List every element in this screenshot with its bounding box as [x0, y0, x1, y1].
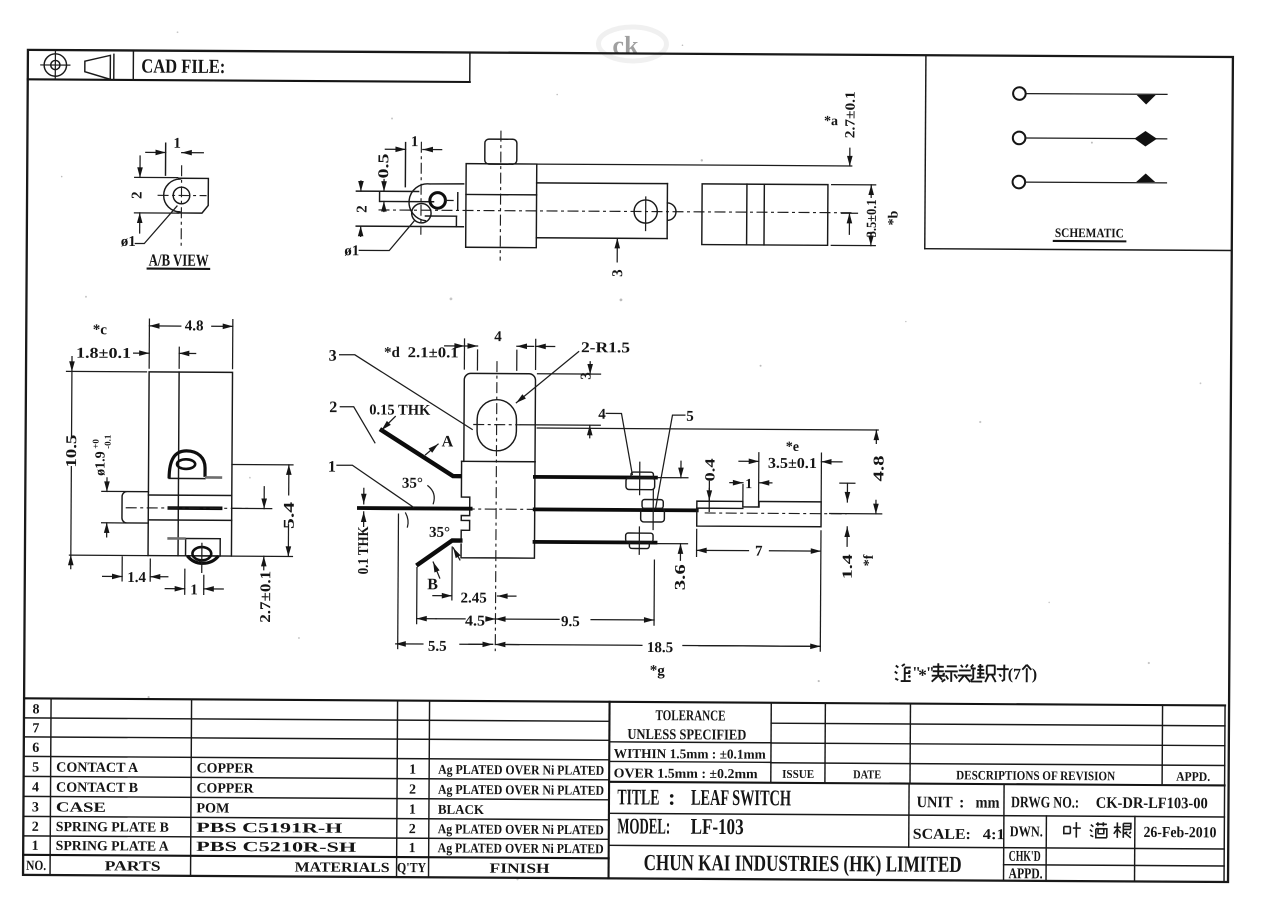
svg-text:B: B — [427, 576, 438, 593]
svg-text:2: 2 — [329, 399, 337, 416]
svg-text:): ) — [1032, 666, 1037, 683]
svg-text:APPD.: APPD. — [1176, 769, 1210, 784]
svg-text:WITHIN 1.5mm : ±0.1mm: WITHIN 1.5mm : ±0.1mm — [614, 746, 767, 762]
svg-text:COPPER: COPPER — [197, 761, 255, 776]
svg-text:MATERIALS: MATERIALS — [295, 860, 390, 876]
svg-text:1: 1 — [745, 477, 752, 492]
svg-text:TOLERANCE: TOLERANCE — [655, 708, 725, 724]
svg-text:*e: *e — [786, 440, 799, 455]
svg-text:26-Feb-2010: 26-Feb-2010 — [1143, 824, 1216, 841]
svg-text:4: 4 — [32, 780, 39, 795]
svg-text:1.4: 1.4 — [841, 554, 856, 579]
svg-text:3.5±0.1: 3.5±0.1 — [768, 456, 817, 472]
svg-text:1: 1 — [409, 841, 416, 856]
svg-text:Ag PLATED OVER Ni PLATED: Ag PLATED OVER Ni PLATED — [438, 782, 604, 798]
svg-text:4: 4 — [494, 329, 502, 345]
svg-text:LEAF SWITCH: LEAF SWITCH — [691, 785, 791, 811]
svg-text:*b: *b — [886, 210, 901, 225]
svg-text:10.5: 10.5 — [64, 435, 80, 468]
svg-text:*g: *g — [650, 663, 666, 679]
svg-text:*c: *c — [93, 322, 108, 338]
svg-text:4.8: 4.8 — [871, 455, 887, 481]
svg-text:(7: (7 — [1008, 666, 1021, 683]
svg-text:2: 2 — [354, 205, 370, 213]
svg-text:5: 5 — [32, 760, 39, 775]
svg-text:3: 3 — [329, 348, 337, 365]
svg-text:DESCRIPTIONS OF REVISION: DESCRIPTIONS OF REVISION — [956, 767, 1116, 783]
svg-text:ck: ck — [612, 31, 639, 60]
svg-text:2: 2 — [130, 191, 146, 199]
svg-text:SPRING PLATE A: SPRING PLATE A — [56, 839, 170, 855]
svg-text:35°: 35° — [402, 476, 423, 492]
svg-text:2: 2 — [32, 820, 39, 835]
svg-text:9.5: 9.5 — [561, 614, 580, 630]
svg-text:SCALE:: SCALE: — [913, 827, 971, 843]
svg-text:PBS C5210R-SH: PBS C5210R-SH — [196, 840, 356, 856]
svg-text:18.5: 18.5 — [647, 640, 673, 656]
svg-text:MODEL:: MODEL: — [617, 813, 670, 838]
svg-text:3: 3 — [32, 800, 39, 815]
svg-text::: : — [959, 794, 964, 811]
svg-text:1: 1 — [328, 459, 336, 476]
svg-text:UNIT: UNIT — [917, 794, 953, 811]
svg-text:": " — [926, 665, 935, 682]
svg-text:1.4: 1.4 — [127, 570, 146, 586]
svg-text:8: 8 — [32, 702, 39, 717]
svg-text:*a: *a — [824, 114, 838, 129]
svg-text:+0: +0 — [91, 439, 101, 449]
svg-text:6: 6 — [32, 741, 39, 756]
svg-text:0.1 THK: 0.1 THK — [356, 526, 372, 574]
svg-text:0.4: 0.4 — [703, 458, 718, 481]
svg-text:7: 7 — [32, 721, 39, 736]
svg-text:3: 3 — [578, 372, 594, 380]
svg-text:35°: 35° — [429, 525, 450, 541]
svg-text:ø1: ø1 — [121, 234, 136, 250]
svg-text:2.7±0.1: 2.7±0.1 — [258, 571, 274, 623]
svg-text:4.5: 4.5 — [465, 613, 485, 629]
svg-text:Ag PLATED OVER Ni PLATED: Ag PLATED OVER Ni PLATED — [438, 762, 604, 778]
svg-text:5.5: 5.5 — [428, 639, 447, 655]
svg-text:-0.1: -0.1 — [103, 434, 113, 449]
svg-text:*d: *d — [384, 345, 401, 361]
svg-text:0.5: 0.5 — [376, 153, 392, 178]
svg-text:Ag PLATED OVER Ni PLATED: Ag PLATED OVER Ni PLATED — [438, 821, 604, 837]
svg-text:ø1: ø1 — [344, 243, 359, 259]
svg-text:mm: mm — [975, 794, 1000, 811]
svg-text:2.45: 2.45 — [461, 590, 487, 606]
svg-text:CAD FILE:: CAD FILE: — [141, 56, 225, 78]
svg-text:1.8±0.1: 1.8±0.1 — [76, 346, 131, 362]
svg-text:2: 2 — [409, 783, 416, 798]
svg-text:LF-103: LF-103 — [691, 814, 744, 839]
svg-text:SPRING PLATE B: SPRING PLATE B — [56, 820, 169, 836]
svg-text:PARTS: PARTS — [105, 859, 161, 874]
svg-text::: : — [668, 785, 676, 810]
svg-text:DRWG NO.:: DRWG NO.: — [1011, 794, 1079, 811]
svg-text:3: 3 — [610, 269, 626, 277]
svg-text:SCHEMATIC: SCHEMATIC — [1055, 225, 1124, 240]
svg-text:ø1.9: ø1.9 — [93, 451, 108, 476]
svg-text:Q'TY: Q'TY — [397, 861, 426, 876]
svg-text:CASE: CASE — [56, 801, 106, 816]
svg-text:1: 1 — [411, 134, 419, 150]
svg-text:0.15 THK: 0.15 THK — [369, 402, 430, 418]
svg-text:1: 1 — [32, 839, 39, 854]
svg-text:4.8: 4.8 — [185, 318, 204, 334]
svg-text:CK-DR-LF103-00: CK-DR-LF103-00 — [1096, 795, 1208, 813]
svg-text:FINISH: FINISH — [490, 862, 550, 877]
svg-text:A/B VIEW: A/B VIEW — [149, 251, 209, 270]
svg-text:2.1±0.1: 2.1±0.1 — [408, 345, 459, 361]
svg-text:5: 5 — [686, 409, 694, 425]
svg-text:4: 4 — [598, 407, 606, 423]
svg-text:TITLE: TITLE — [617, 784, 659, 809]
svg-text:APPD.: APPD. — [1009, 866, 1043, 882]
svg-text:3.6: 3.6 — [673, 564, 689, 591]
svg-text:4:1: 4:1 — [983, 827, 1005, 843]
svg-text:1: 1 — [190, 582, 198, 598]
svg-text:ISSUE: ISSUE — [782, 767, 814, 781]
svg-text:CONTACT B: CONTACT B — [56, 781, 138, 796]
svg-text:2.7±0.1: 2.7±0.1 — [843, 91, 858, 138]
svg-text:OVER 1.5mm : ±0.2mm: OVER 1.5mm : ±0.2mm — [614, 765, 759, 781]
svg-text:UNLESS SPECIFIED: UNLESS SPECIFIED — [627, 727, 746, 744]
svg-text:BLACK: BLACK — [438, 802, 485, 817]
svg-text:COPPER: COPPER — [197, 781, 255, 796]
svg-text:1: 1 — [409, 763, 416, 778]
svg-text:1: 1 — [173, 136, 181, 152]
svg-text:DWN.: DWN. — [1010, 824, 1043, 840]
svg-text:1: 1 — [409, 803, 416, 818]
svg-text:3.5±0.1: 3.5±0.1 — [865, 199, 880, 237]
svg-text:CHK'D: CHK'D — [1009, 849, 1041, 865]
svg-text:POM: POM — [196, 801, 229, 816]
svg-text:CONTACT A: CONTACT A — [56, 761, 139, 776]
svg-text:CHUN KAI INDUSTRIES (HK) LIMIT: CHUN KAI INDUSTRIES (HK) LIMITED — [644, 850, 962, 877]
svg-text:A: A — [442, 433, 454, 450]
svg-text:PBS C5191R-H: PBS C5191R-H — [196, 821, 342, 837]
svg-text:7: 7 — [755, 544, 763, 560]
svg-text:5.4: 5.4 — [282, 501, 298, 529]
svg-text:2-R1.5: 2-R1.5 — [581, 340, 630, 356]
svg-text:Ag PLATED OVER Ni PLATED: Ag PLATED OVER Ni PLATED — [438, 840, 604, 856]
svg-text:DATE: DATE — [853, 767, 881, 781]
svg-text:NO.: NO. — [26, 859, 46, 874]
svg-text:2: 2 — [409, 822, 416, 837]
svg-text:*f: *f — [862, 554, 877, 566]
